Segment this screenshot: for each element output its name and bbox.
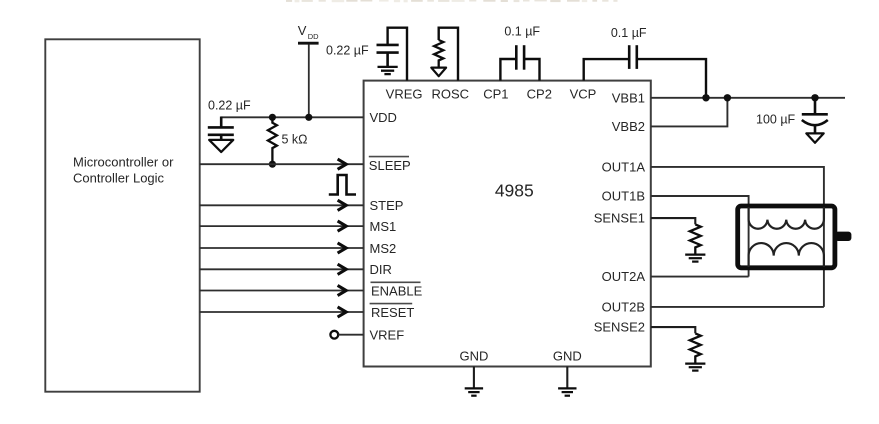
svg-text:GND: GND: [553, 349, 582, 364]
wire OUT2B: [651, 306, 824, 308]
motor winding 1: [749, 207, 824, 229]
svg-text:V: V: [298, 23, 307, 38]
svg-text:5 kΩ: 5 kΩ: [282, 132, 308, 146]
ground (arrow style) below C1: [209, 140, 233, 152]
svg-text:VREG: VREG: [386, 87, 423, 102]
ground at GND pin (left): [465, 388, 483, 395]
svg-text:SENSE1: SENSE1: [594, 211, 645, 226]
svg-text:VBB1: VBB1: [612, 90, 645, 105]
svg-text:OUT2A: OUT2A: [602, 269, 646, 284]
node VDD junction (supply stem): [305, 114, 312, 121]
svg-text:ROSC: ROSC: [432, 87, 470, 102]
wire VCP to C4: [584, 59, 630, 81]
wire OUT1B: [651, 196, 749, 277]
svg-text:VBB2: VBB2: [612, 119, 645, 134]
ground below R4: [685, 364, 705, 371]
arrow into MS1 pin: [338, 221, 347, 231]
svg-text:ENABLE: ENABLE: [371, 283, 423, 298]
wire GND pin stub (right): [566, 367, 568, 389]
resistor R4 (sense 2): [690, 333, 701, 363]
pin label RESET (active low): [370, 304, 415, 320]
cropped title remnant at top edge: [286, 0, 292, 2]
wire VDD supply stem: [308, 44, 310, 117]
wire OUT1A: [651, 167, 824, 307]
svg-text:STEP: STEP: [370, 198, 404, 213]
resistor R3 (sense 1): [690, 224, 701, 254]
motor M1 shaft: [835, 232, 852, 241]
arrow into SLEEP pin: [338, 159, 347, 169]
svg-text:Microcontroller or: Microcontroller or: [73, 155, 174, 170]
arrow into ENABLE pin: [338, 285, 347, 295]
node junction VBB2/VBB1: [724, 94, 731, 101]
ground (arrow style) below C5: [806, 133, 823, 142]
wire SENSE1: [651, 218, 695, 224]
svg-text:0.1 µF: 0.1 µF: [504, 24, 540, 38]
svg-text:100 µF: 100 µF: [756, 112, 796, 126]
capacitor C2 0.22uF (VREG): [377, 45, 399, 67]
svg-text:DIR: DIR: [370, 262, 392, 277]
svg-text:RESET: RESET: [371, 305, 414, 320]
node VDD junction (5k top): [269, 114, 276, 121]
wire ROSC loop: [439, 28, 458, 81]
node junction C4/VBB: [702, 94, 709, 101]
ground at GND pin (right): [558, 388, 576, 395]
motor winding 2: [749, 243, 824, 267]
microcontroller box label: [73, 155, 174, 186]
wire VBB1 net: [651, 97, 845, 99]
capacitor C1 0.22uF (VDD): [208, 117, 234, 140]
node VREF open terminal: [330, 331, 338, 339]
svg-text:OUT2B: OUT2B: [602, 299, 645, 314]
capacitor C5 100uF (electrolytic): [802, 98, 828, 133]
svg-text:CP1: CP1: [483, 87, 508, 102]
wire MS1: [200, 225, 364, 227]
wire CP1 to C3: [500, 59, 516, 81]
svg-text:4985: 4985: [495, 181, 534, 201]
svg-text:VREF: VREF: [370, 328, 405, 343]
wire GND pin stub (left): [473, 367, 475, 389]
svg-text:DD: DD: [308, 32, 319, 41]
wire VDD net: [221, 116, 363, 118]
svg-text:SLEEP: SLEEP: [369, 158, 411, 173]
wire VREF: [338, 334, 363, 336]
node junction C5/VBB: [811, 94, 818, 101]
ground below R3: [685, 255, 705, 262]
wire SENSE2: [651, 327, 695, 333]
capacitor C4 0.1uF (VCP): [629, 45, 637, 69]
resistor R2 (ROSC): [434, 40, 443, 67]
node SLEEP junction (5k bottom): [269, 161, 276, 168]
wire C4 to VBB net: [637, 59, 706, 98]
svg-text:GND: GND: [459, 349, 488, 364]
ground below C2: [378, 67, 398, 74]
svg-text:OUT1B: OUT1B: [602, 189, 645, 204]
svg-text:VDD: VDD: [370, 110, 397, 125]
wire STEP: [200, 204, 364, 206]
capacitor C3 0.1uF (CP1-CP2): [516, 45, 524, 69]
wire OUT2A: [651, 276, 749, 278]
pin label SLEEP (active low): [369, 157, 411, 173]
svg-text:Controller Logic: Controller Logic: [73, 171, 165, 186]
wire VREG loop: [388, 28, 407, 81]
svg-text:OUT1A: OUT1A: [602, 159, 646, 174]
arrow into STEP pin: [338, 200, 347, 210]
microcontroller box: [45, 39, 199, 391]
wire DIR: [200, 268, 364, 270]
IC U1 body (4985): [364, 81, 651, 367]
motor M1 (stepper) body: [738, 206, 835, 268]
wire MS2: [200, 247, 364, 249]
svg-text:SENSE2: SENSE2: [594, 320, 645, 335]
wire C3 to CP2: [524, 59, 539, 81]
svg-text:CP2: CP2: [527, 87, 552, 102]
arrow into DIR pin: [338, 264, 347, 274]
supply VDD symbol: [298, 23, 319, 43]
resistor R1 5 kOhm: [268, 117, 277, 164]
wire SLEEP: [200, 163, 364, 165]
pin label ENABLE (active low): [371, 282, 423, 298]
step pulse symbol: [329, 175, 356, 195]
wire RESET: [200, 311, 364, 313]
wire VBB2 to VBB net: [651, 98, 728, 127]
svg-text:MS1: MS1: [370, 219, 397, 234]
svg-text:VCP: VCP: [570, 87, 597, 102]
svg-text:MS2: MS2: [370, 241, 397, 256]
svg-text:0.1 µF: 0.1 µF: [611, 26, 647, 40]
arrow into MS2 pin: [338, 243, 347, 253]
svg-text:0.22 µF: 0.22 µF: [208, 99, 251, 113]
ground (arrow style) below R2: [431, 68, 446, 77]
svg-text:0.22 µF: 0.22 µF: [326, 43, 369, 57]
arrow into RESET pin: [338, 307, 347, 317]
wire ENABLE: [200, 290, 364, 292]
